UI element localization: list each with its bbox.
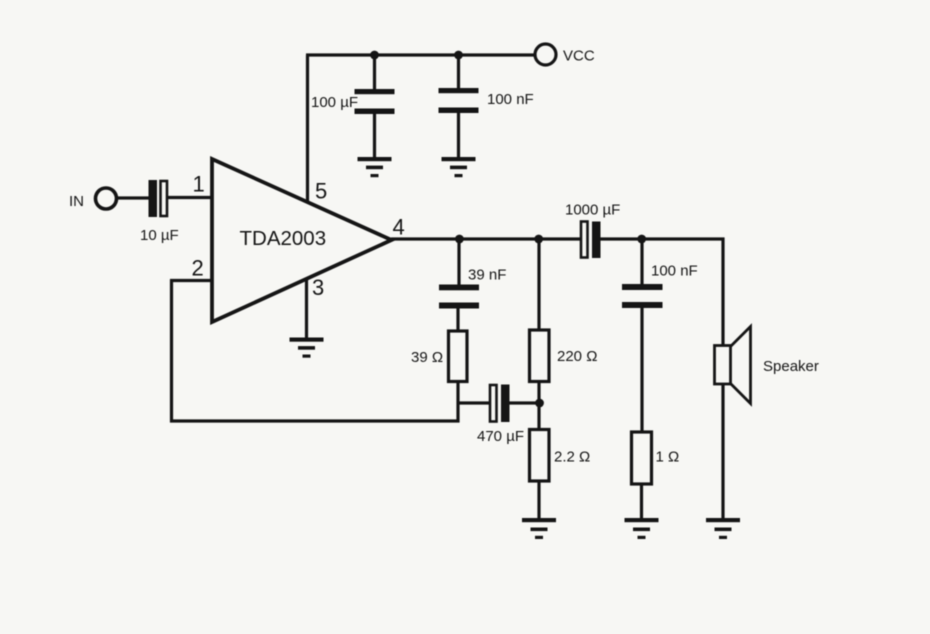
wire R1 to feedback rail xyxy=(456,382,459,423)
resistor R2 220 ohm xyxy=(530,330,550,382)
wire pin 5 riser xyxy=(306,55,309,203)
wire C6 to node xyxy=(510,401,542,404)
wire output rail left of C4 xyxy=(391,237,581,240)
ground under C2 xyxy=(358,157,392,177)
svg-text:100 nF: 100 nF xyxy=(651,263,698,280)
resistor R4 1 ohm xyxy=(632,432,652,484)
wire R2 to node xyxy=(537,382,540,430)
wire feedback vertical xyxy=(170,280,173,423)
svg-text:Speaker: Speaker xyxy=(763,358,819,375)
svg-text:1000 µF: 1000 µF xyxy=(565,202,620,219)
svg-text:3: 3 xyxy=(312,275,324,300)
ground under R3 xyxy=(522,518,556,539)
svg-text:TDA2003: TDA2003 xyxy=(240,227,327,250)
capacitor C1 10 µF (polarized) xyxy=(149,180,168,217)
ground under R4 xyxy=(625,518,659,539)
capacitor C6 470 µF (polarized) xyxy=(490,385,510,423)
wire C7 to R4 xyxy=(640,308,643,433)
speaker LS1 xyxy=(715,327,751,404)
node junction on VCC rail at C3 xyxy=(454,51,463,60)
svg-text:1 Ω: 1 Ω xyxy=(656,449,680,466)
wire speaker drop xyxy=(721,238,724,347)
wire output rail right of C4 xyxy=(601,237,725,240)
capacitor C4 1000 µF (polarized) xyxy=(581,222,601,259)
wire pin 2 stub xyxy=(170,279,213,282)
wire rail to C2 xyxy=(373,55,376,90)
wire R4 to ground xyxy=(640,484,643,519)
node junction output at 39nF branch xyxy=(455,235,464,244)
wire jack to C1 xyxy=(117,196,151,199)
wire C3 to ground xyxy=(457,113,460,159)
ground at pin 3 xyxy=(290,338,324,358)
node junction on VCC rail at C2 xyxy=(370,51,379,60)
svg-text:39 nF: 39 nF xyxy=(468,267,506,284)
svg-text:220 Ω: 220 Ω xyxy=(557,348,597,365)
wire R3 to ground xyxy=(537,481,540,519)
wire branch to C6 xyxy=(458,401,490,404)
capacitor C3 100 nF xyxy=(439,88,479,113)
op-amp U1 TDA2003 xyxy=(212,159,392,322)
wire feedback bottom rail xyxy=(170,419,460,422)
node junction R2/R3 xyxy=(535,399,544,408)
svg-text:100 nF: 100 nF xyxy=(487,91,534,108)
VCC terminal circle xyxy=(535,44,556,65)
resistor R3 2.2 ohm xyxy=(530,430,550,482)
svg-text:10 µF: 10 µF xyxy=(140,227,179,244)
ground under C3 xyxy=(442,157,476,177)
capacitor C2 100 µF xyxy=(355,89,395,114)
svg-text:IN: IN xyxy=(69,193,84,210)
wire output to R2 xyxy=(537,239,540,331)
resistor R1 39 ohm xyxy=(449,331,468,382)
wire output to C7 xyxy=(640,239,643,285)
node junction output at 100nF branch xyxy=(637,235,646,244)
ground under speaker xyxy=(706,518,740,539)
svg-text:4: 4 xyxy=(393,215,405,240)
wire to C5 xyxy=(457,239,460,285)
svg-text:2.2 Ω: 2.2 Ω xyxy=(554,449,590,466)
wire C2 to ground xyxy=(373,114,376,159)
svg-text:5: 5 xyxy=(315,179,327,204)
input jack IN terminal xyxy=(96,188,117,209)
capacitor C5 39 nF xyxy=(439,285,479,309)
svg-text:470 µF: 470 µF xyxy=(477,428,524,445)
svg-text:VCC: VCC xyxy=(563,48,595,65)
wire C5 to R1 xyxy=(456,308,459,332)
node junction output at 220R branch xyxy=(534,235,543,244)
wire pin 3 stub xyxy=(305,280,308,339)
svg-text:2: 2 xyxy=(192,256,204,281)
wire VCC top rail xyxy=(306,53,536,56)
wire rail to C3 xyxy=(457,55,460,90)
wire C1 to pin 1 xyxy=(168,196,214,199)
capacitor C7 100 nF xyxy=(622,284,663,308)
wire speaker to ground xyxy=(721,384,724,519)
svg-text:1: 1 xyxy=(193,172,205,197)
svg-text:39 Ω: 39 Ω xyxy=(411,349,443,366)
svg-text:100 µF: 100 µF xyxy=(311,94,358,111)
